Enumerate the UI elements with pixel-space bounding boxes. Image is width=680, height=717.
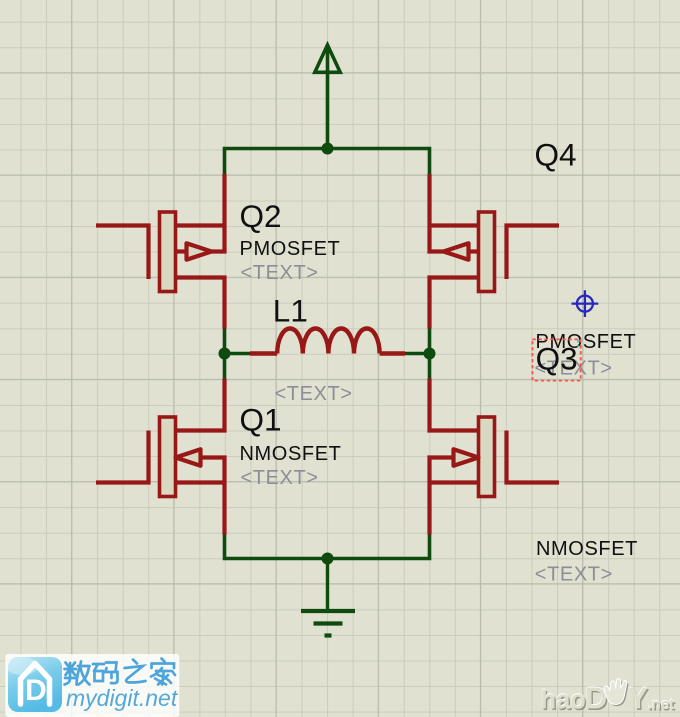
Q1 drain pin bbox=[176, 379, 225, 431]
Q3 arrow bbox=[454, 449, 479, 466]
svg-text:PMOSFET: PMOSFET bbox=[240, 238, 341, 260]
svg-text:<TEXT>: <TEXT> bbox=[241, 467, 319, 489]
transistor Q4 PMOSFET (top-right, mirrored) bbox=[430, 174, 560, 329]
wire: top rail with corner drops bbox=[225, 149, 430, 175]
Q4 source pin bbox=[430, 278, 479, 329]
power symbol VCC bbox=[315, 45, 340, 149]
svg-text:Y: Y bbox=[628, 681, 649, 716]
svg-text:hao: hao bbox=[541, 687, 586, 715]
watermark hand glyph bbox=[604, 679, 628, 706]
watermark haoDIY.net embossed bbox=[540, 679, 675, 717]
Q2 arrow bbox=[187, 243, 212, 259]
char 数 bbox=[65, 662, 90, 685]
inductor L1 bbox=[250, 329, 405, 354]
Q4 top stub bbox=[430, 223, 479, 227]
Q4 drain pin + bulk stub bbox=[430, 174, 444, 252]
wire: mid green left bbox=[225, 329, 252, 379]
Q3 source pin + bulk stub bbox=[430, 458, 454, 535]
junction top bbox=[322, 143, 334, 155]
char 之 bbox=[125, 660, 146, 683]
L1 right lead bbox=[380, 351, 405, 355]
transistor Q1 NMOSFET (bottom-left) bbox=[96, 379, 225, 535]
Q1 gate pin bbox=[96, 431, 149, 483]
watermark mydigit panel bbox=[5, 654, 179, 717]
origin marker (blue crosshair) bbox=[572, 290, 599, 317]
Q1 bottom stub bbox=[176, 480, 225, 484]
transistor Q2 PMOSFET (top-left) bbox=[96, 174, 225, 329]
svg-text:<TEXT>: <TEXT> bbox=[535, 563, 613, 585]
Q4 arrow bbox=[444, 243, 469, 259]
svg-text:NMOSFET: NMOSFET bbox=[536, 538, 638, 560]
char 码 bbox=[93, 663, 118, 684]
svg-text:<TEXT>: <TEXT> bbox=[241, 262, 319, 284]
Q2 channel plate bbox=[160, 212, 176, 292]
svg-text:<TEXT>: <TEXT> bbox=[275, 383, 353, 405]
svg-text:L1: L1 bbox=[273, 292, 308, 328]
svg-text:Q1: Q1 bbox=[240, 401, 282, 437]
svg-text:Q4: Q4 bbox=[535, 137, 577, 173]
ground bbox=[301, 559, 355, 636]
junction mid-right bbox=[424, 348, 436, 360]
svg-text:NMOSFET: NMOSFET bbox=[240, 443, 342, 465]
Q3 gate pin bbox=[507, 431, 560, 483]
Q2 gate pin bbox=[96, 226, 149, 280]
selection box around Q3 label bbox=[532, 339, 580, 380]
svg-text:Q3: Q3 bbox=[536, 341, 578, 377]
Q4 bulk stub right part bbox=[469, 249, 479, 253]
Q3 channel plate bbox=[479, 417, 495, 497]
transistor Q3 NMOSFET (bottom-right, mirrored) bbox=[430, 379, 560, 535]
Q3 bottom stub bbox=[430, 480, 479, 484]
Q1 source pin + bulk stub bbox=[201, 458, 225, 535]
junction bottom bbox=[322, 553, 334, 565]
cyan tick on selection box bbox=[577, 340, 579, 348]
L1 coil bbox=[277, 329, 379, 354]
watermark chinese 数码之家 (stylized strokes) bbox=[65, 659, 176, 685]
svg-text:Q2: Q2 bbox=[240, 198, 282, 234]
wire: mid green right bbox=[405, 329, 430, 379]
junction mid-left bbox=[219, 348, 231, 360]
Q1 arrow bbox=[176, 449, 201, 466]
Q1 channel plate bbox=[160, 417, 176, 497]
Q3 drain pin bbox=[430, 379, 479, 431]
L1 left lead bbox=[250, 351, 277, 355]
Q4 gate pin bbox=[507, 226, 560, 280]
svg-text:mydigit.net: mydigit.net bbox=[66, 685, 179, 711]
svg-text:D: D bbox=[585, 681, 607, 716]
svg-text:.net: .net bbox=[648, 696, 675, 713]
Q2 bulk stub left part bbox=[176, 249, 187, 253]
Q2 top stub bbox=[176, 223, 225, 227]
char 家 bbox=[151, 659, 175, 685]
svg-text:D: D bbox=[25, 674, 47, 707]
wire: bottom rail with corner rises bbox=[225, 535, 430, 559]
mydigit logo bbox=[6, 657, 62, 712]
Q4 channel plate bbox=[479, 212, 495, 292]
Q2 source pin bbox=[176, 278, 225, 329]
Q2 drain pin + bulk stub bbox=[211, 174, 225, 252]
